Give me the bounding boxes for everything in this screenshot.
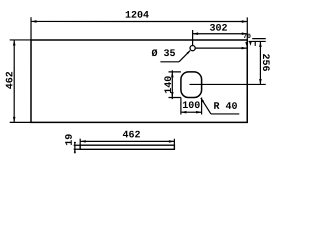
svg-text:Ø 35: Ø 35	[152, 48, 176, 60]
dim 256 line	[259, 41, 261, 84]
dim 1204 extension line right	[246, 17, 248, 40]
dim 462 left arrow top	[13, 40, 16, 46]
svg-text:1204: 1204	[125, 11, 149, 22]
dim 302 arrow left	[193, 32, 199, 35]
dim 256 arrow bottom	[259, 79, 262, 85]
dim 1204 extension line left	[30, 17, 32, 40]
svg-text:19: 19	[65, 134, 76, 146]
dim 462 side extension left	[79, 139, 81, 146]
radius R40 leader landing	[211, 113, 239, 115]
dim 19 extension top	[74, 144, 81, 146]
svg-text:70: 70	[243, 33, 251, 40]
radius R40 leader diagonal	[201, 98, 211, 114]
hole leader landing underline	[160, 61, 179, 63]
dim 140 extension bottom	[168, 97, 180, 99]
dim 100 extension left	[180, 98, 182, 115]
dim 462 side arrow left	[80, 140, 86, 143]
dim 302 extension line (hole center)	[192, 30, 194, 45]
svg-text:140: 140	[164, 76, 175, 94]
dim 256 arrow top	[259, 41, 262, 47]
dim 70 down arrow b	[249, 42, 251, 46]
dim 256 extension line bottom (from cutout center)	[190, 83, 266, 85]
dim 302 line	[193, 33, 248, 35]
dim 462 left arrow bottom	[13, 117, 16, 123]
radius R40 leader arrow	[201, 98, 204, 102]
dim 19 arrow top (outside pointing down)	[74, 142, 76, 145]
svg-text:302: 302	[210, 24, 228, 35]
svg-text:256: 256	[259, 53, 270, 71]
dim 462 side arrow right	[169, 140, 175, 143]
dim 302 arrow right	[242, 32, 248, 35]
hole leader diagonal	[179, 51, 190, 62]
hole centerline to right edge with arrow	[195, 47, 246, 49]
dim 100 arrow left	[181, 111, 187, 114]
dim 1204 line	[31, 20, 247, 22]
dim 1204 arrow right	[242, 20, 248, 23]
svg-text:462: 462	[122, 130, 140, 141]
dim 19 arrow bottom (outside pointing up)	[74, 149, 76, 152]
dim 1204 arrow left	[31, 20, 37, 23]
hole leader arrow	[187, 50, 191, 54]
dim 100 extension right	[201, 98, 203, 115]
dim 140 line	[171, 70, 173, 99]
svg-text:100: 100	[182, 101, 200, 112]
dim 462 left extension bottom	[10, 121, 31, 123]
dim 462 side line	[80, 140, 174, 142]
top view panel outline	[31, 40, 247, 122]
dim 19 extension bottom	[74, 148, 81, 150]
dim 462 side extension right	[173, 139, 175, 146]
dim 70 leader line	[252, 38, 266, 40]
dim 19 line	[74, 143, 76, 153]
dim 70 arrow a	[245, 42, 247, 46]
side view bar	[80, 145, 174, 149]
dim 70 tick c	[254, 42, 256, 46]
dim 100 line	[181, 111, 202, 113]
dim 462 left extension top	[10, 39, 31, 41]
svg-text:462: 462	[5, 71, 16, 89]
dim 70 extension line (top edge extended)	[249, 40, 266, 42]
dim 140 arrow bottom	[171, 92, 174, 98]
dim 100 arrow right	[196, 111, 202, 114]
dim 140 extension top	[169, 71, 181, 73]
basin cutout rounded rect	[181, 72, 202, 98]
dim 140 arrow top	[171, 72, 174, 78]
hole circle	[190, 46, 195, 51]
dim 462 left line	[13, 40, 15, 122]
svg-text:R 40: R 40	[213, 102, 237, 113]
